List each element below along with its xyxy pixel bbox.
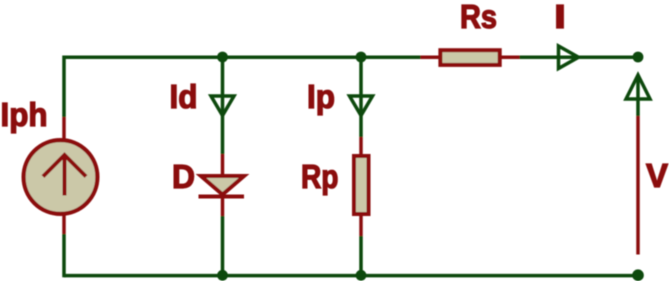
resistor Rs body — [440, 50, 499, 65]
junction dot bottom diode node — [217, 270, 228, 281]
wire: top rail right segment after Rs (green) — [520, 55, 639, 59]
diode D triangle — [201, 176, 244, 195]
wire: left vertical drop from top rail (green) — [62, 56, 66, 118]
current source Iph internal arrow — [43, 155, 86, 196]
diode D lead top (maroon) — [221, 154, 225, 176]
voltage arrow V green shaft segment — [636, 78, 640, 116]
current source Iph circle body — [24, 140, 98, 214]
junction dot bottom right output node — [632, 269, 644, 281]
junction dot bottom Rp node — [356, 270, 367, 281]
svg-text:I: I — [554, 0, 566, 35]
wire: Rp branch upper (green) — [359, 57, 363, 137]
resistor Rp lead top (maroon) — [359, 137, 363, 156]
current source CS lead top (maroon) — [62, 117, 66, 141]
current source CS lead bottom (maroon) — [62, 213, 66, 234]
svg-text:Rs: Rs — [460, 0, 497, 35]
diode D cathode bar — [199, 195, 245, 199]
junction dot top Rp node — [356, 52, 367, 63]
wire: left vertical to bottom rail (green) — [62, 234, 66, 277]
svg-text:Ip: Ip — [307, 78, 335, 115]
junction dot top right output node — [633, 52, 644, 63]
current arrow I (open triangle right) — [559, 46, 579, 69]
voltage arrow V head (open triangle up with shaft) — [626, 75, 650, 99]
svg-text:V: V — [646, 157, 668, 194]
svg-text:Rp: Rp — [301, 158, 339, 195]
junction dot top diode node — [217, 52, 228, 63]
voltage arrow V maroon line — [636, 116, 640, 255]
resistor Rp lead bottom (maroon) — [359, 214, 363, 236]
resistor Rs lead right (maroon) — [499, 55, 520, 59]
diode D lead bottom (maroon) — [221, 194, 225, 216]
resistor Rs lead left (maroon) — [421, 55, 442, 59]
svg-text:Iph: Iph — [1, 96, 48, 133]
wire: diode branch lower (green) — [221, 216, 225, 276]
wire: Rp branch lower (green) — [359, 236, 363, 276]
current arrow Id (open triangle down) — [211, 96, 234, 116]
current arrow Ip (open triangle down) — [350, 96, 373, 116]
wire: bottom rail (green) — [64, 274, 638, 278]
svg-text:D: D — [172, 158, 195, 195]
svg-text:Id: Id — [170, 78, 198, 115]
wire: top rail left segment (green) — [64, 55, 421, 59]
resistor Rp body — [354, 156, 369, 214]
wire: diode branch upper (green) — [221, 57, 225, 154]
